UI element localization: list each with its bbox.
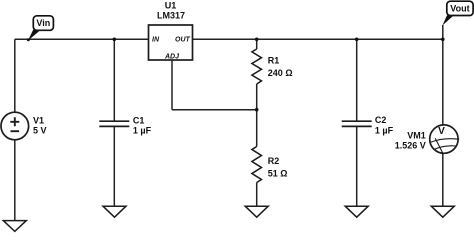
wire: R1 bottom lead to ADJ node bbox=[256, 84, 258, 110]
svg-text:IN: IN bbox=[152, 36, 160, 43]
node: junction VM1/top rail bbox=[441, 38, 445, 42]
ground (V1) bbox=[3, 221, 26, 232]
wire: V1 bottom to ground bbox=[14, 140, 16, 221]
svg-text:ADJ: ADJ bbox=[164, 53, 180, 60]
wire: C2 branch upper bbox=[356, 39, 358, 121]
svg-text:5 V: 5 V bbox=[33, 125, 47, 135]
wire: R2 bottom lead to ground bbox=[256, 183, 258, 207]
node: junction C1/top rail bbox=[113, 38, 117, 42]
ground (R2) bbox=[245, 206, 268, 217]
wire: ADJ pin down from U1 bbox=[171, 60, 173, 110]
svg-text:V1: V1 bbox=[33, 115, 44, 125]
wire: R2 top lead bbox=[256, 110, 258, 147]
svg-text:C2: C2 bbox=[375, 115, 387, 125]
wire: VM1 bottom lead to ground bbox=[442, 153, 444, 206]
svg-text:R2: R2 bbox=[268, 156, 280, 166]
svg-text:LM317: LM317 bbox=[157, 11, 185, 21]
wire: top rail right segment (Vout net) bbox=[193, 38, 443, 40]
svg-text:V: V bbox=[438, 126, 445, 137]
node: junction ADJ/R1/R2 bbox=[255, 108, 259, 112]
net flag Vout bbox=[442, 1, 473, 25]
wire: left rail vertical down to V1 bbox=[14, 39, 16, 112]
svg-text:51 Ω: 51 Ω bbox=[268, 168, 288, 178]
resistor R1 bbox=[252, 49, 293, 84]
svg-text:Vin: Vin bbox=[36, 18, 50, 28]
voltmeter VM1 bbox=[395, 125, 459, 153]
svg-text:1.526 V: 1.526 V bbox=[395, 141, 426, 151]
resistor R2 bbox=[252, 147, 288, 183]
svg-text:R1: R1 bbox=[268, 56, 280, 66]
node: junction R1/top rail bbox=[255, 38, 259, 42]
capacitor C2 bbox=[342, 115, 394, 135]
net flag Vin bbox=[28, 16, 53, 41]
capacitor C1 bbox=[99, 115, 151, 135]
svg-text:U1: U1 bbox=[165, 1, 177, 11]
node: Vin attach point bbox=[27, 38, 30, 41]
IC U1 LM317 voltage regulator bbox=[149, 1, 193, 61]
wire: top rail left segment (Vin net) bbox=[15, 38, 149, 40]
node: junction C2/top rail bbox=[355, 38, 359, 42]
wire: C1 branch upper bbox=[113, 39, 115, 121]
svg-text:VM1: VM1 bbox=[407, 130, 426, 140]
svg-text:1 µF: 1 µF bbox=[375, 126, 394, 136]
wire: VM1 top lead bbox=[442, 39, 444, 125]
wire: C1 branch lower to ground bbox=[113, 126, 115, 206]
wire: ADJ horizontal to R1/R2 node bbox=[172, 109, 257, 111]
ground (C1) bbox=[103, 206, 126, 217]
ground (VM1) bbox=[431, 206, 454, 217]
svg-text:OUT: OUT bbox=[175, 36, 191, 43]
wire: Vout label stub bbox=[442, 25, 444, 39]
svg-text:240 Ω: 240 Ω bbox=[268, 68, 293, 78]
wire: C2 branch lower to ground bbox=[356, 126, 358, 206]
svg-text:1 µF: 1 µF bbox=[133, 125, 152, 135]
voltage source V1 bbox=[1, 112, 47, 140]
ground (C2) bbox=[345, 206, 368, 217]
wire: R1 top lead bbox=[256, 39, 258, 49]
svg-text:Vout: Vout bbox=[450, 4, 469, 14]
svg-text:C1: C1 bbox=[133, 115, 145, 125]
